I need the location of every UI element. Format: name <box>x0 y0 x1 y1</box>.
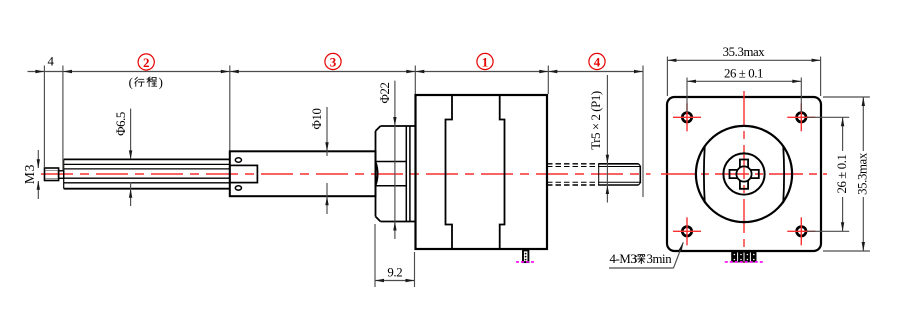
svg-text:2: 2 <box>143 55 150 70</box>
front view centerlines <box>661 91 827 263</box>
screw cross section <box>730 160 759 189</box>
Φ22 label <box>378 83 392 104</box>
lead screw (stroke section) <box>64 159 230 188</box>
M3 dim arrows <box>37 150 40 199</box>
circled number 3 <box>325 53 341 69</box>
svg-text:3min: 3min <box>647 252 673 266</box>
26±0.1 right dimension <box>807 117 849 231</box>
rear shaft Tr5 <box>547 164 640 185</box>
Φ6.5 label <box>114 112 128 136</box>
svg-text:35.3max: 35.3max <box>856 152 870 195</box>
svg-text:(: ( <box>129 76 133 90</box>
svg-text:3: 3 <box>330 54 337 69</box>
circled number 2 <box>138 54 154 70</box>
side connector <box>523 250 528 262</box>
svg-text:M3: M3 <box>22 164 37 184</box>
svg-text:26 ± 0.1: 26 ± 0.1 <box>724 66 763 80</box>
svg-text:Φ22: Φ22 <box>378 83 392 104</box>
motor body <box>416 95 548 249</box>
mounting hole bottom-left <box>673 217 701 245</box>
extension line at 643 <box>642 66 644 198</box>
circled number 1 <box>477 53 493 69</box>
svg-text:35.3max: 35.3max <box>723 45 766 59</box>
svg-text:Φ6.5: Φ6.5 <box>114 112 128 136</box>
35.3max top dimension <box>667 45 820 96</box>
top dimension chain line <box>28 71 644 73</box>
35.3max right dimension <box>823 97 870 251</box>
svg-text:26 ± 0.1: 26 ± 0.1 <box>835 154 849 193</box>
Φ22 dim arrows <box>393 81 396 239</box>
circled number 4 <box>589 53 605 69</box>
side view centerline <box>41 173 651 175</box>
svg-text:4: 4 <box>594 54 601 69</box>
extension line at 44.4 <box>43 66 45 168</box>
extension line at 229.8 <box>229 66 231 151</box>
26±0.1 top dimension <box>687 66 801 112</box>
M3 label <box>22 164 37 184</box>
svg-text:4: 4 <box>48 55 55 69</box>
(行程) stroke label <box>129 76 163 90</box>
Φ6.5 dim arrows <box>129 109 132 206</box>
svg-text:Φ10: Φ10 <box>310 109 324 130</box>
mounting hole top-right <box>787 103 815 131</box>
front connector <box>731 252 756 263</box>
dim text 4 <box>48 55 55 69</box>
dimension arrows top chain <box>35 70 643 73</box>
bearing circle <box>723 153 764 194</box>
front connector magenta line <box>725 261 764 263</box>
M3 tip <box>45 168 59 181</box>
svg-text:9.2: 9.2 <box>387 266 402 280</box>
Tr5x2(P1) label <box>589 91 603 150</box>
extension line at 548.3 <box>547 66 549 95</box>
svg-text:1: 1 <box>482 54 489 69</box>
9.2 dimension <box>375 224 415 287</box>
Φ10 label <box>310 109 324 130</box>
svg-text:4-M3: 4-M3 <box>610 252 637 266</box>
pilot boss circle <box>696 126 792 222</box>
extension line at 415.3 <box>414 66 416 95</box>
svg-text:Tr5 × 2 (P1): Tr5 × 2 (P1) <box>589 91 603 150</box>
hex nut / bushing <box>376 126 415 222</box>
side connector magenta line <box>516 261 535 263</box>
svg-text:): ) <box>159 76 163 90</box>
mounting hole top-left <box>673 103 701 131</box>
outer tube <box>230 151 376 196</box>
front view square flange <box>667 97 821 251</box>
Φ10 dim arrows <box>325 107 328 214</box>
relief neck <box>59 171 64 179</box>
4-M3 leader note <box>609 242 683 268</box>
Tr5 dim arrows <box>606 75 609 203</box>
extension line at 62.9 <box>62 66 64 171</box>
mounting hole bottom-right <box>787 217 815 245</box>
